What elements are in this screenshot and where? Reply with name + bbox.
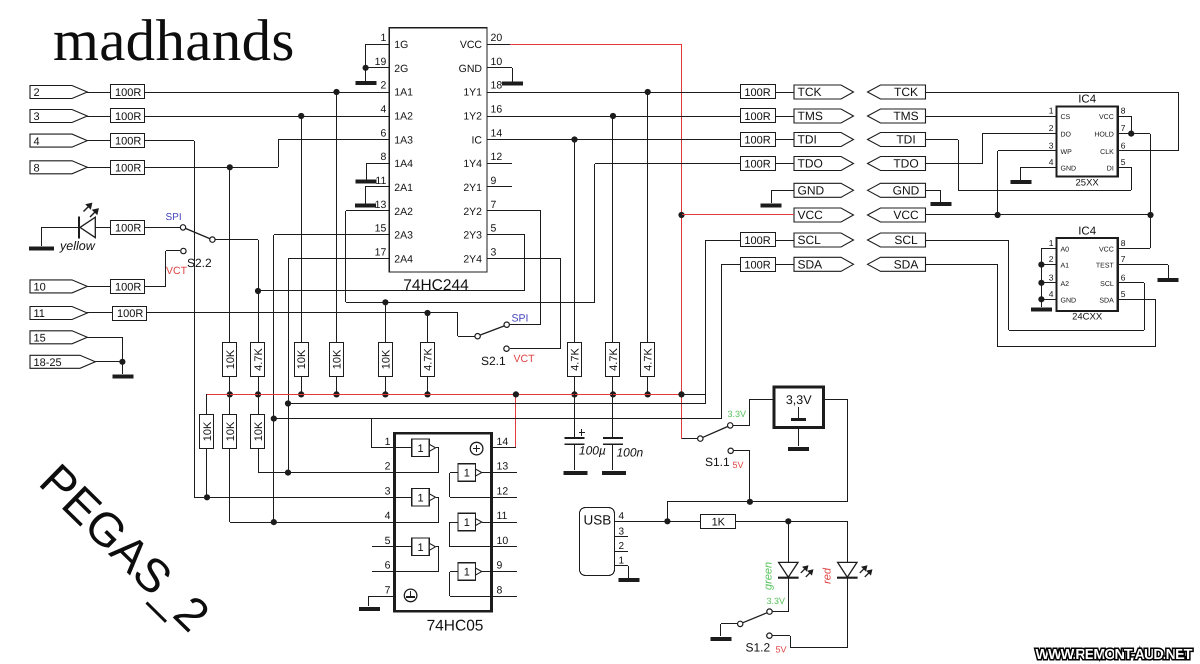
resistor 100R row 11: [113, 307, 147, 321]
svg-text:GND: GND: [798, 184, 825, 198]
svg-text:100R: 100R: [115, 281, 141, 293]
svg-text:1Y1: 1Y1: [463, 87, 482, 99]
svg-text:5V: 5V: [776, 645, 787, 655]
svg-text:A1: A1: [1061, 263, 1070, 270]
resistor 100R TCK: [741, 85, 776, 99]
junction: [747, 499, 753, 505]
connector pin 8: [30, 161, 87, 174]
wire: [229, 448, 231, 522]
svg-text:1Y2: 1Y2: [463, 110, 482, 122]
buffer U1 74HC244 body: [389, 28, 487, 272]
wire SCL loop: [288, 403, 706, 405]
resistor R pull 4.7K (row11): [421, 343, 435, 377]
svg-text:SCL: SCL: [1100, 281, 1114, 288]
svg-text:madhands: madhands: [53, 7, 295, 73]
connector pin 15: [30, 331, 87, 344]
svg-text:100R: 100R: [117, 308, 143, 320]
wire: [258, 448, 260, 473]
capacitor C1 100u: [574, 394, 576, 437]
svg-text:S1.2: S1.2: [746, 641, 771, 655]
svg-text:8: 8: [497, 584, 503, 596]
wire 25XX VCC to HOLD: [1118, 116, 1131, 118]
svg-text:1: 1: [619, 555, 625, 566]
switch S2.1 lever: [480, 326, 504, 335]
svg-text:10K: 10K: [202, 421, 214, 441]
junction on VCC bus: [610, 391, 616, 397]
inverter U2 74HC05 body: [395, 433, 492, 611]
wire U2 pin 10 stub: [492, 546, 517, 548]
wire row11 to S2.1 pole: [147, 312, 458, 314]
svg-text:17: 17: [375, 246, 387, 258]
ground U1 pin10: [502, 82, 523, 86]
label arrow TDI (out): [794, 133, 854, 147]
svg-text:11: 11: [34, 308, 45, 320]
ground GND arrow: [761, 204, 782, 208]
capacitor C2 100n: [612, 394, 614, 438]
svg-text:TMS: TMS: [893, 109, 918, 123]
svg-text:2G: 2G: [394, 63, 408, 75]
resistor 10K (U2 pin4 pull): [223, 415, 237, 449]
wire VCC net to EEPROMs: [925, 214, 1150, 216]
wire row4 down: [145, 140, 194, 142]
ground USB: [618, 578, 639, 582]
wire: [790, 647, 847, 649]
wire VCC bus (red): [207, 394, 682, 396]
junction: [119, 359, 125, 365]
label arrow VCC (in): [868, 208, 926, 222]
wire: [87, 286, 111, 288]
USB pin 4 wire: [614, 521, 667, 523]
junction TDO pull tap: [382, 299, 388, 305]
wire top lead x=613.0: [612, 116, 614, 342]
junction row2 pull tap: [333, 89, 339, 95]
wire bottom lead to VCC bus: [336, 376, 338, 394]
wire U2 pin 8 stub: [492, 596, 517, 598]
wire green LED cathode: [788, 578, 790, 612]
U1 2A1 ground wire: [365, 186, 389, 188]
wire TDI to 25XX DI: [925, 139, 958, 141]
svg-text:IC4: IC4: [1078, 94, 1097, 106]
svg-text:2A4: 2A4: [394, 253, 413, 265]
svg-text:2: 2: [385, 461, 391, 473]
svg-text:6: 6: [1121, 272, 1126, 282]
wire: [736, 521, 847, 523]
wire regulator in: [750, 399, 774, 401]
svg-text:2: 2: [619, 541, 625, 552]
svg-text:100n: 100n: [617, 446, 644, 460]
wire WP to VCC: [997, 153, 999, 215]
svg-text:5: 5: [491, 223, 497, 235]
junction GND: [1038, 296, 1044, 302]
wire: [847, 399, 849, 502]
wire bottom lead to VCC bus: [229, 376, 231, 394]
svg-text:3.3V: 3.3V: [767, 596, 786, 606]
switch S1.2 3.3V contact: [767, 609, 772, 614]
junction row11 4.7K tap: [424, 310, 430, 316]
svg-text:1K: 1K: [712, 516, 726, 528]
label arrow TMS (out): [794, 109, 854, 123]
wire TDO loop horizontal: [346, 302, 595, 304]
svg-text:13: 13: [375, 199, 387, 211]
svg-text:1A2: 1A2: [394, 110, 413, 122]
junction 1G/2G: [363, 65, 369, 71]
svg-text:100R: 100R: [744, 135, 770, 147]
wire 25XX GND: [1020, 167, 1056, 169]
resistor 100R TDI: [741, 133, 776, 147]
U2 ground symbol: [404, 589, 417, 602]
svg-text:SCL: SCL: [798, 233, 822, 247]
label arrow GND (out): [794, 183, 854, 197]
svg-text:100R: 100R: [115, 111, 141, 123]
wire top lead x=229.8: [229, 167, 231, 342]
svg-text:8: 8: [34, 163, 40, 175]
wire: [145, 286, 166, 288]
svg-text:8: 8: [1121, 106, 1126, 116]
svg-text:TDO: TDO: [893, 157, 918, 171]
svg-text:VCT: VCT: [166, 265, 188, 277]
svg-text:DO: DO: [1061, 132, 1072, 139]
svg-text:2: 2: [380, 80, 386, 92]
wire SCL 100R feed: [706, 240, 740, 242]
svg-text:4: 4: [619, 511, 625, 522]
wire red LED anode: [847, 521, 849, 562]
wire TCK row: [487, 92, 740, 94]
svg-text:100R: 100R: [744, 235, 770, 247]
inverter gate U2 left #1: [394, 447, 412, 449]
svg-text:10K: 10K: [225, 349, 237, 369]
svg-text:10: 10: [497, 535, 509, 547]
svg-text:A2: A2: [1061, 281, 1070, 288]
svg-text:1A3: 1A3: [394, 134, 413, 146]
junction: [571, 136, 577, 142]
resistor R pull 4.7K (TDI): [568, 343, 582, 377]
ground 1A4: [356, 180, 377, 184]
wire: [775, 240, 794, 242]
wire TMS row: [487, 116, 740, 118]
svg-text:5V: 5V: [733, 460, 744, 470]
resistor 100R row 3: [111, 109, 145, 123]
switch S1.2 5V contact: [767, 633, 772, 638]
svg-text:3: 3: [1049, 140, 1054, 150]
wire red drop to U2 pin14: [515, 394, 517, 448]
wire top lead x=385.4: [385, 302, 387, 342]
wire VCC red riser from U1 pin20: [487, 44, 510, 46]
svg-text:SCL: SCL: [894, 233, 918, 247]
svg-text:10K: 10K: [296, 349, 308, 369]
svg-text:SDA: SDA: [1099, 297, 1114, 304]
ground U2 pin7: [359, 607, 380, 611]
svg-text:74HC244: 74HC244: [403, 277, 469, 294]
wire S1.2 pole to ground: [721, 623, 737, 625]
resistor R pull 10K (TDO): [379, 343, 393, 377]
svg-text:TCK: TCK: [894, 85, 918, 99]
svg-text:18-25: 18-25: [34, 357, 62, 369]
LED D1 yellow: [78, 217, 80, 239]
svg-text:1A1: 1A1: [394, 87, 413, 99]
svg-text:15: 15: [34, 333, 46, 345]
wire: [775, 264, 794, 266]
U2 power symbol (+): [470, 442, 483, 455]
wire U2 pin5 stub: [372, 546, 394, 548]
svg-text:GND: GND: [1061, 297, 1077, 304]
wire 25XX WP: [998, 150, 1056, 152]
wire TDO loop up: [594, 164, 596, 302]
wire 2Y1 stub: [487, 186, 512, 188]
svg-text:1: 1: [1049, 238, 1054, 248]
wire TDO from 25XX DO: [925, 163, 982, 165]
connector pins 18-25: [30, 355, 95, 368]
svg-text:1A4: 1A4: [394, 158, 413, 170]
label arrow SCL (out): [794, 233, 854, 247]
junction: [645, 89, 651, 95]
label arrow VCC (out): [794, 208, 854, 222]
wire GND arrow feed: [771, 190, 794, 192]
svg-text:green: green: [762, 562, 774, 590]
switch S2.2 pole: [210, 237, 215, 242]
connector pin 4: [30, 134, 87, 147]
switch S1.1 lever: [703, 427, 727, 438]
connector pin 10: [30, 280, 87, 293]
U1 1A4 ground wire: [366, 163, 389, 165]
U1 2G wire: [366, 67, 389, 69]
LED D3 red: [838, 562, 857, 577]
wire 2Y3 horizontal: [258, 290, 525, 292]
wire SCL to 24CXX: [925, 240, 1009, 242]
resistor R pull 4.7K (TMS): [606, 343, 620, 377]
wire bottom lead to VCC bus: [258, 376, 260, 394]
inverter gate U2 right #1: [458, 464, 476, 482]
wire 2Y4 stub: [487, 258, 560, 260]
svg-text:2A1: 2A1: [394, 182, 413, 194]
wire U2 pin 9 stub: [492, 571, 517, 573]
svg-text:100R: 100R: [744, 111, 770, 123]
resistor 100R SCL: [741, 233, 776, 247]
svg-text:19: 19: [375, 56, 387, 68]
wire TMS to 25XX CS: [925, 116, 1056, 118]
svg-text:TEST: TEST: [1096, 263, 1115, 270]
wire GND in-arrow to ground: [925, 190, 941, 192]
svg-text:10: 10: [34, 282, 46, 294]
junction VCC row: [678, 212, 684, 218]
svg-text:1: 1: [464, 468, 470, 480]
USB pin 2 stub: [614, 551, 628, 553]
wire 2Y2 stub: [487, 210, 541, 212]
svg-text:red: red: [821, 567, 833, 584]
label arrow TMS (in): [868, 109, 926, 123]
wire 2A3 down: [274, 234, 389, 236]
resistor R pull 10K (row3): [295, 343, 309, 377]
inverter gate U2 right #3: [458, 563, 476, 581]
svg-text:2: 2: [34, 87, 40, 99]
svg-text:1: 1: [417, 443, 423, 455]
junction on VCC bus: [645, 391, 651, 397]
svg-text:4: 4: [1049, 157, 1054, 167]
switch S1.1 5V contact: [728, 448, 733, 453]
wire 1Y4 stub: [487, 163, 512, 165]
resistor 10K (U2 pin2 pull): [251, 415, 265, 449]
wire row3 to 1A2: [145, 116, 389, 118]
svg-text:A0: A0: [1061, 246, 1070, 253]
svg-text:SPI: SPI: [512, 313, 529, 325]
ground 2A1: [355, 204, 376, 208]
U1 pin10 GND wire: [487, 67, 512, 69]
svg-text:TDI: TDI: [798, 133, 817, 147]
wire: [229, 394, 231, 414]
svg-text:6: 6: [1121, 140, 1126, 150]
svg-text:14: 14: [491, 127, 503, 139]
label arrow TDO (in): [868, 157, 926, 171]
resistor 100R row 4: [111, 134, 145, 148]
connector pin 11: [30, 307, 87, 320]
junction: [610, 113, 616, 119]
wire U2 pin14 stub: [492, 447, 516, 449]
wire VCT to row10: [166, 250, 180, 252]
resistor R pull 10K (row8): [223, 343, 237, 377]
svg-text:yellow: yellow: [59, 239, 96, 253]
wire bottom lead to VCC bus: [574, 376, 576, 394]
junction 24CXX VCC tap: [1147, 212, 1153, 218]
wire: [87, 312, 113, 314]
svg-text:1Y4: 1Y4: [463, 158, 482, 170]
wire 24CXX TEST to ground: [1118, 264, 1168, 266]
wire VCC arrow feed (red): [682, 214, 794, 216]
svg-text:8: 8: [1121, 238, 1126, 248]
wire: [775, 163, 794, 165]
wire green LED anode: [788, 521, 790, 562]
svg-text:1G: 1G: [394, 39, 408, 51]
svg-text:7: 7: [385, 584, 391, 596]
junction 2Y3/S2.2/4.7K: [255, 288, 261, 294]
svg-text:100R: 100R: [115, 222, 141, 234]
wire: [206, 448, 208, 497]
junction VCC bus: [678, 391, 684, 397]
wire bus black extension: [682, 394, 706, 396]
wire top lead x=336.5: [336, 92, 338, 342]
wire: [667, 502, 669, 521]
USB pin 3 stub: [614, 536, 628, 538]
label arrow TDO (out): [794, 157, 854, 171]
LED D2 green: [779, 562, 798, 577]
junction A2: [1038, 280, 1044, 286]
junction on VCC bus: [255, 391, 261, 397]
wire: [775, 92, 794, 94]
svg-text:VCC: VCC: [1099, 114, 1114, 121]
junction on VCC bus: [424, 391, 430, 397]
junction: [513, 391, 519, 397]
inverter gate U2 right #2: [458, 513, 476, 531]
eeprom IC4 24CXX body: [1057, 238, 1118, 311]
svg-text:100µ: 100µ: [579, 444, 606, 458]
svg-text:1: 1: [417, 542, 423, 554]
label arrow SDA (out): [794, 257, 854, 271]
svg-text:WP: WP: [1061, 149, 1073, 156]
svg-text:24CXX: 24CXX: [1072, 312, 1103, 323]
switch S2.1 SPI contact: [504, 322, 509, 327]
wire: [772, 611, 788, 613]
regulator 3.3V body: [774, 387, 824, 428]
svg-text:15: 15: [375, 223, 387, 235]
label arrow GND (in): [868, 183, 926, 197]
wire U2 pin 11 stub: [492, 522, 517, 524]
wire row8: [145, 167, 278, 169]
switch S2.2 SPI contact: [180, 225, 185, 230]
resistor 100R TDO: [741, 157, 776, 171]
svg-text:8: 8: [380, 151, 386, 163]
svg-text:TDO: TDO: [798, 157, 823, 171]
svg-text:2Y3: 2Y3: [463, 230, 482, 242]
svg-text:4.7K: 4.7K: [570, 348, 582, 371]
svg-text:WWW.REMONT-AUD.NET: WWW.REMONT-AUD.NET: [1036, 647, 1193, 663]
svg-text:GND: GND: [1061, 165, 1077, 172]
svg-text:5: 5: [1121, 157, 1126, 167]
wire VCT to 2Y4: [510, 348, 560, 350]
svg-text:4.7K: 4.7K: [643, 348, 655, 371]
resistor R pull 4.7K (S2.2 net): [251, 343, 265, 377]
svg-text:1: 1: [464, 567, 470, 579]
eeprom IC4 25XX body: [1057, 107, 1118, 177]
wire U2 pin1 tap: [371, 419, 373, 448]
svg-text:3,3V: 3,3V: [786, 393, 812, 407]
wire U2 pin4: [230, 522, 394, 524]
svg-text:2: 2: [1049, 123, 1054, 133]
svg-text:GND: GND: [459, 63, 483, 75]
wire: [775, 139, 794, 141]
wire: [682, 438, 697, 440]
svg-text:4.7K: 4.7K: [423, 348, 435, 371]
svg-text:VCC: VCC: [798, 208, 824, 222]
wire 25XX HOLD stub: [1118, 133, 1131, 135]
wire SDA 100R feed: [721, 264, 740, 266]
svg-text:3: 3: [1049, 272, 1054, 282]
wire row8 up to 1A3: [278, 139, 280, 167]
svg-text:14: 14: [497, 436, 509, 448]
svg-text:SDA: SDA: [894, 258, 919, 272]
svg-text:SPI: SPI: [166, 212, 182, 223]
svg-text:2: 2: [1049, 254, 1054, 264]
wire 24CXX VCC: [1118, 248, 1150, 250]
svg-text:2A3: 2A3: [394, 230, 413, 242]
wire bottom lead to VCC bus: [612, 376, 614, 394]
wire: [145, 227, 180, 229]
switch S2.1 VCT contact: [504, 346, 509, 351]
ground 25XX GND: [1010, 180, 1031, 184]
ground C2: [602, 471, 626, 475]
junction on VCC bus: [382, 391, 388, 397]
wire U2 pin3: [194, 497, 394, 499]
resistor 100R row 2: [111, 85, 145, 99]
svg-text:S1.1: S1.1: [705, 455, 730, 469]
wire TDI row: [487, 139, 740, 141]
svg-text:7: 7: [1121, 254, 1126, 264]
svg-text:DI: DI: [1107, 165, 1114, 172]
wire: [667, 521, 701, 523]
svg-text:5: 5: [1121, 289, 1126, 299]
svg-text:4.7K: 4.7K: [253, 348, 265, 371]
junction on VCC bus: [333, 391, 339, 397]
svg-text:2Y4: 2Y4: [463, 253, 482, 265]
wire regulator gnd: [798, 428, 800, 446]
junction pin2/2A4: [285, 470, 291, 476]
svg-text:100R: 100R: [744, 259, 770, 271]
wire: [734, 450, 750, 452]
svg-text:12: 12: [497, 485, 509, 497]
svg-text:VCT: VCT: [514, 353, 536, 365]
wire S2.2 pole to 2Y3 net: [215, 239, 258, 241]
switch S2.2 lever: [186, 229, 210, 239]
svg-text:74HC05: 74HC05: [427, 618, 484, 635]
svg-text:11: 11: [375, 175, 386, 187]
svg-text:1: 1: [1049, 106, 1054, 116]
